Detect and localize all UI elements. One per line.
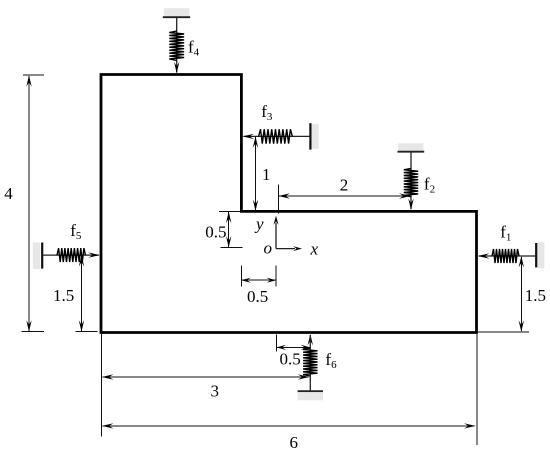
dimension 1.5 left: line with arrows <box>79 255 84 332</box>
wall anchor for f6 <box>298 391 323 400</box>
spring f1 <box>478 249 536 263</box>
dimension 0.5 origin-vertical: line with arrows <box>226 212 231 248</box>
dimension 4: line with arrows <box>26 75 31 332</box>
spring f4 <box>169 17 184 73</box>
wall anchor for f3 <box>310 123 318 149</box>
y axis <box>274 216 279 249</box>
x axis <box>276 246 302 251</box>
dimension 0.5 below origin: extension ticks <box>240 266 242 287</box>
dimension 0.5 origin-vertical: extension lines <box>219 210 240 212</box>
dimension 3: extension line left <box>101 334 103 437</box>
dimension 2: line with arrows <box>279 193 411 198</box>
spring f2 <box>404 152 418 210</box>
svg-text:1.5: 1.5 <box>525 286 546 305</box>
dimension 3: line with arrows <box>102 374 309 379</box>
svg-text:0.5: 0.5 <box>280 350 301 369</box>
spring f3 <box>243 129 311 143</box>
spring f6 <box>303 334 317 391</box>
wall anchor for f5 <box>33 243 42 270</box>
dimension 0.5 at f6: double arrow <box>277 345 311 350</box>
svg-text:4: 4 <box>4 184 13 203</box>
wall anchor for f2 <box>398 143 425 151</box>
spring f5 <box>42 248 99 262</box>
dimension 0.5 below origin: double arrow <box>241 278 276 283</box>
dimension 4: extension ticks <box>23 74 44 76</box>
L-shaped plate outline <box>101 75 477 333</box>
svg-text:o: o <box>264 239 273 258</box>
svg-text:2: 2 <box>340 175 349 194</box>
svg-text:y: y <box>254 215 264 234</box>
dimension 2: extension line <box>278 185 280 214</box>
wall anchor for f4 <box>163 8 190 17</box>
wall anchor for f1 <box>536 242 544 268</box>
svg-text:0.5: 0.5 <box>205 222 226 241</box>
svg-text:x: x <box>310 240 319 259</box>
svg-text:1: 1 <box>262 165 271 184</box>
dimension 0.5 at f6: extension tick <box>276 335 278 352</box>
dimension 1.5 right: extension line <box>478 331 529 333</box>
svg-text:0.5: 0.5 <box>247 287 268 306</box>
dimension 1: line with arrows <box>253 136 258 211</box>
dimension 6: extension line right <box>476 334 478 445</box>
svg-text:1.5: 1.5 <box>53 286 74 305</box>
svg-text:3: 3 <box>211 381 220 400</box>
svg-text:6: 6 <box>290 433 299 452</box>
dimension 1.5 left: extension tick <box>75 331 97 333</box>
dimension 1.5 right: line with arrows <box>519 256 524 332</box>
dimension 6: line with arrows <box>102 423 476 428</box>
